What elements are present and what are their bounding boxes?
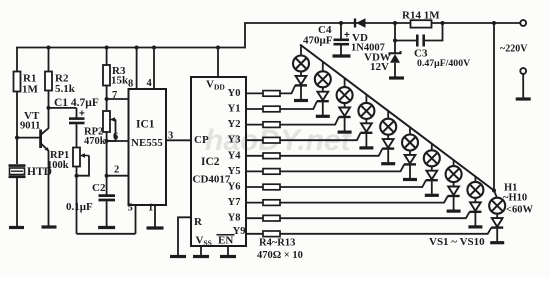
svg-text:~H10: ~H10 bbox=[503, 193, 527, 204]
ground mains N bbox=[516, 97, 531, 100]
resistor R5 bbox=[263, 106, 280, 112]
wire R2 top lead bbox=[48, 48, 50, 72]
ground bbox=[381, 162, 395, 165]
svg-text:1: 1 bbox=[148, 203, 153, 214]
thyristor VS4 bbox=[360, 119, 372, 133]
resistor R14 bbox=[411, 20, 432, 27]
svg-text:4: 4 bbox=[147, 78, 153, 89]
op-amp U1 IC1 NE555 box bbox=[129, 89, 167, 205]
wire lamp H5 stub bbox=[387, 111, 389, 119]
wire lamp H2 stub bbox=[322, 62, 324, 72]
resistor R13 bbox=[263, 231, 280, 237]
ground VDW bbox=[389, 76, 404, 79]
svg-text:0.47μF/400V: 0.47μF/400V bbox=[417, 58, 470, 69]
wire pin 7 bbox=[107, 98, 129, 100]
wire HTD top lead bbox=[16, 138, 18, 164]
wire pin 2 bbox=[107, 175, 129, 177]
svg-text:15k: 15k bbox=[111, 75, 129, 87]
node collector bbox=[47, 106, 51, 110]
svg-text:R14 1M: R14 1M bbox=[402, 10, 440, 22]
svg-text:<60W: <60W bbox=[506, 205, 533, 216]
resistor R12 bbox=[263, 215, 280, 221]
svg-text:IC1: IC1 bbox=[136, 119, 155, 131]
wire R1 bottom lead bbox=[16, 92, 18, 138]
wire Y7 output bbox=[246, 202, 263, 204]
wire VDD pin bbox=[217, 48, 219, 78]
wire VS7 cathode lead bbox=[431, 181, 433, 194]
terminal mains N bbox=[520, 68, 526, 74]
resistor R1 bbox=[14, 72, 21, 92]
wire RP2 bottom lead bbox=[106, 132, 108, 176]
wire VS6 cathode lead bbox=[409, 166, 411, 179]
wire R8 to gate bbox=[280, 149, 382, 156]
piezo transducer HTD bbox=[9, 166, 26, 177]
wire Y5 output bbox=[246, 170, 263, 172]
lamp H9 bbox=[467, 182, 483, 198]
thyristor VS1 bbox=[295, 72, 307, 86]
svg-text:5: 5 bbox=[128, 203, 133, 214]
wire diagonal lamp bus bbox=[300, 45, 494, 191]
ground bbox=[403, 178, 417, 181]
svg-text:470k: 470k bbox=[84, 136, 106, 147]
thyristor VS2 bbox=[317, 87, 329, 101]
wire R3 top lead bbox=[106, 48, 108, 66]
node pin6 junction bbox=[105, 139, 109, 143]
ground bbox=[490, 241, 504, 244]
wire collector lead bbox=[48, 108, 50, 129]
svg-text:6: 6 bbox=[113, 132, 118, 143]
svg-text:2: 2 bbox=[114, 165, 119, 176]
wire VS4 cathode lead bbox=[365, 134, 367, 147]
wire lamp H9 stub bbox=[474, 177, 476, 183]
svg-text:Y8: Y8 bbox=[228, 213, 241, 224]
thyristor VS5 bbox=[382, 135, 394, 149]
wire VS8 cathode lead bbox=[453, 197, 455, 210]
wire pin 6 bbox=[107, 140, 129, 142]
svg-text:EN: EN bbox=[218, 235, 233, 247]
resistor R10 bbox=[263, 184, 280, 190]
wire VS1 cathode lead bbox=[300, 87, 302, 100]
ground R pin bbox=[170, 255, 186, 258]
wire Y9 output bbox=[246, 233, 263, 235]
wire pin 1 bbox=[154, 205, 156, 227]
lamp H6 bbox=[402, 135, 418, 151]
lamp H3 bbox=[337, 87, 353, 103]
svg-text:R: R bbox=[194, 216, 203, 228]
node pin7 junction bbox=[105, 97, 109, 101]
wire pin 3 to CP bbox=[166, 139, 191, 141]
wire lamp H1 stub bbox=[300, 45, 302, 56]
resistor R4 bbox=[263, 91, 280, 97]
wire Y1 output bbox=[246, 108, 263, 110]
wire R pin to ground bbox=[178, 217, 191, 255]
node base junction bbox=[15, 136, 19, 140]
ground EN bbox=[220, 255, 236, 258]
node C4 top bbox=[339, 21, 343, 25]
wire VS2 cathode lead bbox=[322, 102, 324, 115]
ground bbox=[294, 99, 308, 102]
wire collector to C1 bbox=[49, 107, 77, 109]
wire VS10 cathode lead bbox=[496, 229, 498, 242]
capacitor C3 bbox=[417, 35, 423, 47]
wire C4 bottom lead bbox=[340, 46, 342, 55]
wire C1 top lead bbox=[76, 108, 78, 118]
node RP1 bottom bbox=[75, 174, 79, 178]
wire emitter lead bbox=[48, 150, 50, 226]
svg-text:Y1: Y1 bbox=[228, 104, 241, 115]
zener diode VDW bbox=[390, 51, 401, 63]
wire lamp H7 stub bbox=[431, 144, 433, 151]
wire C4 top lead bbox=[340, 23, 342, 39]
wire VS5 cathode lead bbox=[387, 150, 389, 163]
svg-text:9011: 9011 bbox=[20, 121, 40, 132]
wire C1 bottom lead bbox=[76, 124, 78, 147]
wire Y2 output bbox=[246, 124, 263, 126]
wire pin 8 bbox=[136, 48, 138, 90]
svg-text:470Ω × 10: 470Ω × 10 bbox=[257, 250, 303, 261]
wire pin5 riser bbox=[135, 205, 137, 234]
lamp H1 bbox=[293, 56, 309, 72]
wire C3 left lead bbox=[395, 40, 416, 42]
svg-text:R4~R13: R4~R13 bbox=[259, 238, 295, 249]
wire RP2 wiper lead bbox=[107, 120, 116, 142]
svg-text:+: + bbox=[79, 109, 85, 120]
wire RP1 bottom lead bbox=[76, 167, 78, 234]
resistor R11 bbox=[263, 200, 280, 206]
wire R12 to gate bbox=[280, 212, 470, 218]
resistor R8 bbox=[263, 153, 280, 159]
node diagonal end bbox=[492, 189, 496, 193]
svg-text:NE555: NE555 bbox=[131, 137, 163, 149]
svg-text:Y7: Y7 bbox=[228, 197, 241, 208]
svg-text:5.1k: 5.1k bbox=[55, 83, 76, 95]
lamp H4 bbox=[358, 103, 374, 119]
svg-text:VS1 ~ VS10: VS1 ~ VS10 bbox=[429, 236, 485, 248]
capacitor C4 bbox=[334, 40, 350, 44]
svg-text:C1 4.7μF: C1 4.7μF bbox=[54, 97, 99, 109]
wire Y0 output bbox=[246, 92, 263, 94]
wire R10 to gate bbox=[280, 180, 426, 187]
wire lamp H8 stub bbox=[453, 160, 455, 167]
resistor R7 bbox=[263, 137, 280, 143]
svg-text:12V: 12V bbox=[370, 61, 389, 73]
ground C4 bbox=[333, 54, 351, 57]
svg-text:C2: C2 bbox=[92, 182, 106, 194]
wire top rail to mains bbox=[244, 22, 521, 24]
ground VT emitter bbox=[42, 225, 57, 228]
svg-text:CP: CP bbox=[194, 134, 209, 146]
resistor R2 bbox=[45, 72, 52, 91]
wire mains drop bbox=[493, 23, 495, 191]
wire Y6 output bbox=[246, 186, 263, 188]
ground bbox=[468, 225, 482, 228]
thyristor VS9 bbox=[469, 198, 481, 212]
resistor R9 bbox=[263, 169, 280, 175]
potentiometer RP1 bbox=[73, 148, 89, 167]
node pin2 junction bbox=[105, 174, 109, 178]
wire VDD left rail bbox=[17, 47, 245, 49]
resistor R6 bbox=[263, 122, 280, 128]
ground bbox=[316, 115, 330, 118]
ground bbox=[359, 146, 373, 149]
svg-text:CD4017: CD4017 bbox=[193, 174, 231, 186]
wire VT base lead bbox=[17, 137, 40, 139]
lamp H5 bbox=[380, 119, 396, 135]
ground C2 bbox=[98, 226, 115, 229]
wire VSS pin bbox=[200, 246, 202, 256]
wire pin 4 bbox=[153, 48, 155, 90]
wire R13 to gate bbox=[280, 228, 491, 234]
svg-text:8: 8 bbox=[128, 79, 133, 90]
wire RP1 to pin5 bbox=[77, 233, 136, 235]
wire C3 right lead bbox=[425, 23, 443, 41]
svg-text:Y9: Y9 bbox=[233, 226, 246, 237]
node zener junction bbox=[393, 21, 397, 25]
lamp H7 bbox=[424, 150, 440, 166]
wire lamp H4 stub bbox=[365, 95, 367, 104]
wire R5 to gate bbox=[280, 101, 317, 109]
wire zener top lead bbox=[394, 23, 396, 53]
wire C2 bottom lead bbox=[106, 201, 108, 226]
svg-text:0.1μF: 0.1μF bbox=[66, 201, 93, 213]
node watermark bbox=[205, 124, 353, 157]
thyristor VS6 bbox=[404, 151, 416, 165]
wire VDD rail step up bbox=[244, 23, 246, 48]
thyristor VS7 bbox=[426, 166, 438, 180]
lamp H8 bbox=[446, 166, 462, 182]
wire R9 to gate bbox=[280, 164, 404, 171]
wire EN pin bbox=[227, 246, 229, 256]
svg-text:Y6: Y6 bbox=[228, 182, 241, 193]
wire VS9 cathode lead bbox=[474, 213, 476, 226]
op-amp U2 IC2 CD4017 box bbox=[191, 77, 246, 246]
capacitor C2 bbox=[99, 196, 116, 200]
svg-text:7: 7 bbox=[112, 90, 117, 101]
node R3 top bbox=[105, 46, 109, 50]
wire Y3 output bbox=[246, 139, 263, 141]
node C3 branch bbox=[393, 39, 397, 43]
wire zener bottom lead bbox=[394, 63, 396, 77]
ground bbox=[447, 210, 461, 213]
svg-text:~220V: ~220V bbox=[500, 44, 528, 55]
thyristor VS8 bbox=[448, 182, 460, 196]
node pin8 rail bbox=[135, 46, 139, 50]
svg-text:3: 3 bbox=[168, 131, 173, 142]
wire RP2 top lead bbox=[106, 99, 108, 111]
wire Y4 output bbox=[246, 155, 263, 157]
wire R7 to gate bbox=[280, 133, 361, 140]
svg-text:Y3: Y3 bbox=[228, 135, 241, 146]
wire R4 to gate bbox=[280, 85, 295, 93]
resistor R3 bbox=[103, 65, 110, 86]
svg-text:470μF: 470μF bbox=[303, 35, 333, 47]
svg-text:Y5: Y5 bbox=[228, 166, 241, 177]
ground pin1 bbox=[147, 226, 164, 229]
wire HTD bottom lead bbox=[16, 178, 18, 227]
node mains drop bbox=[492, 21, 496, 25]
wire mains N lead bbox=[522, 74, 524, 98]
wire R11 to gate bbox=[280, 196, 448, 203]
wire VS3 cathode lead bbox=[344, 118, 346, 131]
wire R3 bottom lead bbox=[106, 86, 108, 100]
node pin4 rail bbox=[152, 46, 156, 50]
node VDD rail bbox=[216, 46, 220, 50]
wire RP1 wiper lead bbox=[77, 156, 90, 176]
wire lamp H6 stub bbox=[409, 127, 411, 135]
svg-text:Y4: Y4 bbox=[228, 150, 242, 161]
wire lamp H3 stub bbox=[344, 78, 346, 88]
ground bbox=[425, 194, 439, 197]
terminal mains L bbox=[520, 20, 526, 26]
thyristor VS3 bbox=[339, 103, 351, 117]
svg-text:100k: 100k bbox=[47, 160, 69, 171]
thyristor VS10 bbox=[491, 214, 503, 228]
svg-text:Y0: Y0 bbox=[228, 88, 241, 99]
svg-text:+: + bbox=[344, 30, 350, 41]
ground VSS bbox=[193, 255, 209, 258]
lamp H10 bbox=[489, 198, 505, 214]
transistor VT bbox=[41, 128, 49, 151]
wire C2 top lead bbox=[106, 176, 108, 195]
svg-text:Y2: Y2 bbox=[228, 119, 241, 130]
wire R2 to collector bbox=[48, 91, 50, 108]
node C3 right bbox=[441, 21, 445, 25]
wire R1 top lead bbox=[16, 47, 18, 72]
capacitor C1 bbox=[69, 119, 85, 123]
potentiometer RP2 bbox=[103, 111, 116, 132]
wire Y8 output bbox=[246, 217, 263, 219]
lamp H2 bbox=[315, 71, 331, 87]
wire R6 to gate bbox=[280, 117, 339, 125]
wire lamp H10 stub bbox=[494, 191, 497, 199]
svg-text:IC2: IC2 bbox=[201, 156, 220, 168]
ground HTD bbox=[9, 226, 24, 229]
ground bbox=[338, 131, 352, 134]
diode VD 1N4007 bbox=[355, 18, 366, 28]
svg-text:1M: 1M bbox=[22, 84, 39, 96]
node R2 top bbox=[47, 46, 51, 50]
